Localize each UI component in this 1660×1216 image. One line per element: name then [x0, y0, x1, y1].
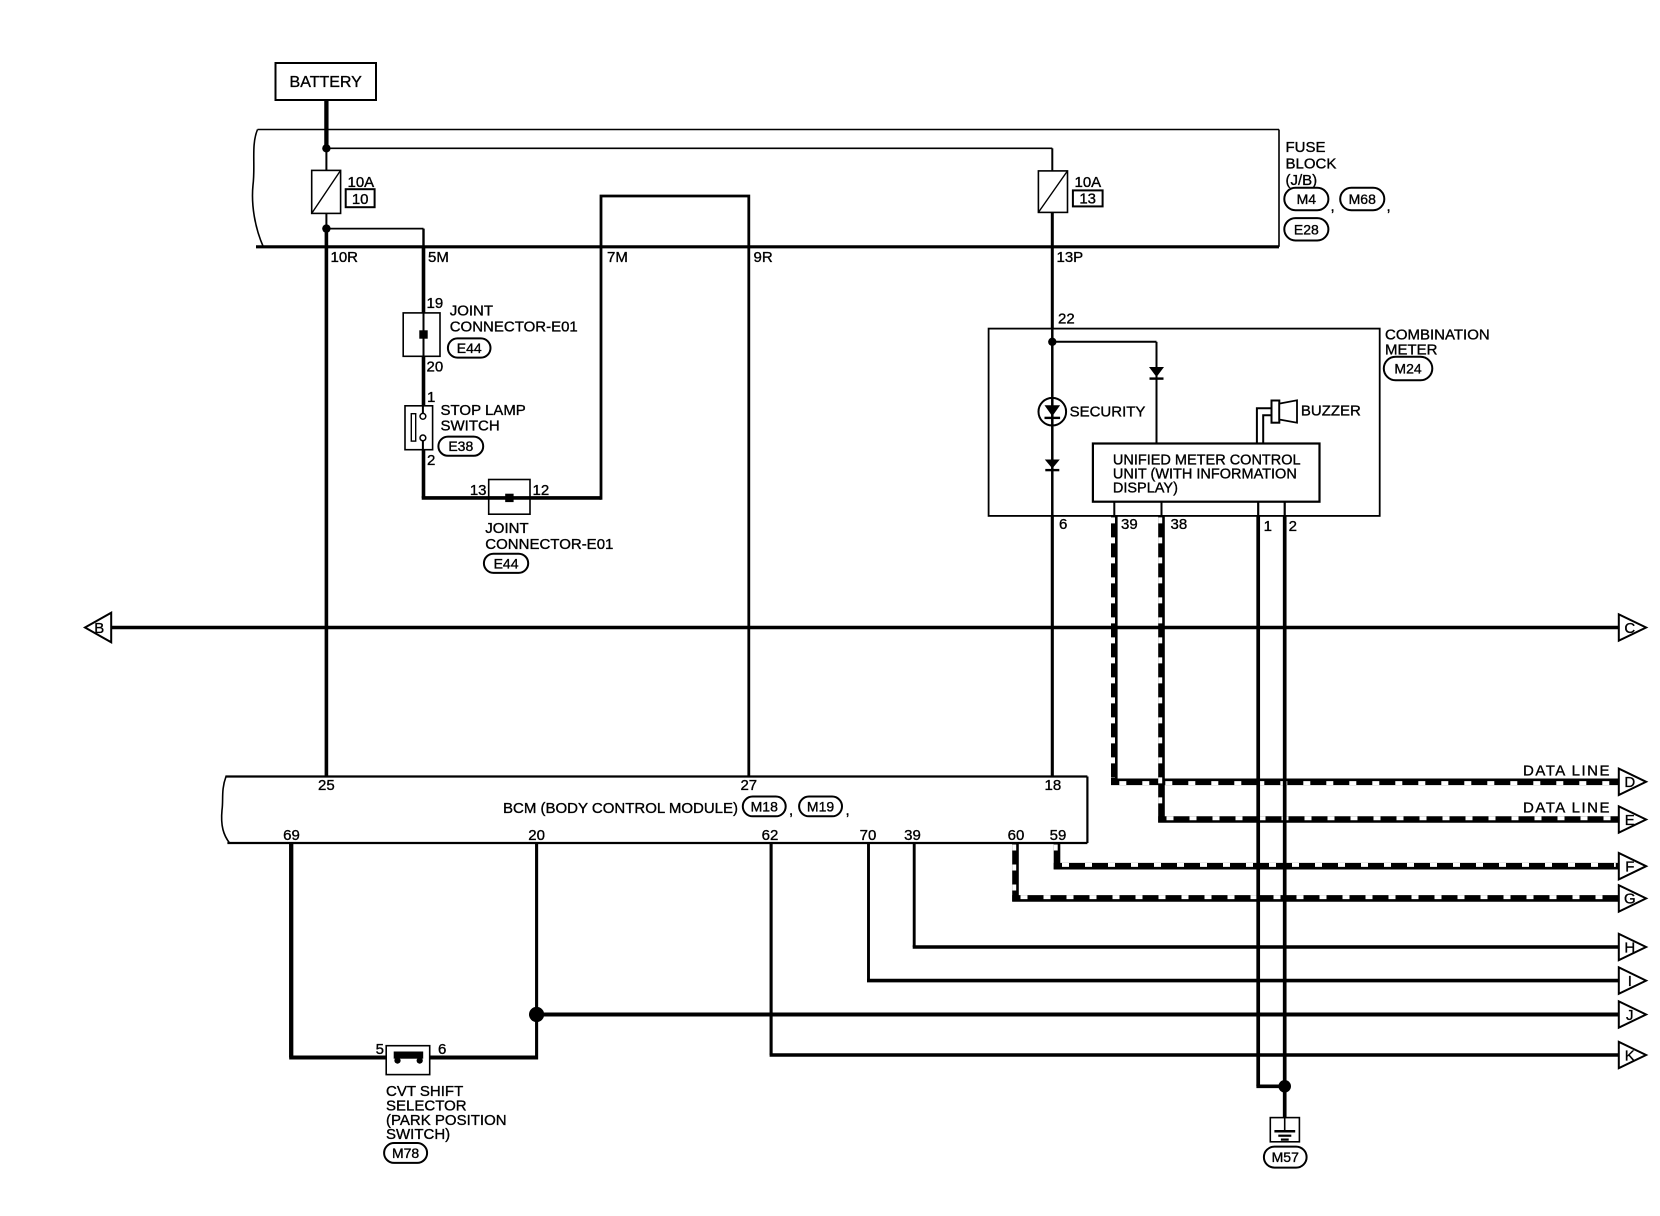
svg-text:39: 39	[1121, 516, 1138, 533]
svg-text:10: 10	[352, 191, 369, 208]
svg-text:2: 2	[427, 452, 435, 469]
svg-text:20: 20	[427, 359, 444, 376]
svg-text:9R: 9R	[754, 249, 773, 266]
svg-text:13P: 13P	[1057, 249, 1084, 266]
svg-text:M78: M78	[392, 1145, 419, 1161]
svg-text:10A: 10A	[1075, 174, 1102, 191]
svg-text:39: 39	[904, 827, 921, 844]
svg-text:SECURITY: SECURITY	[1070, 404, 1146, 421]
svg-text:M19: M19	[807, 798, 834, 814]
svg-text:6: 6	[1059, 516, 1067, 533]
svg-text:BATTERY: BATTERY	[290, 74, 363, 91]
svg-text:G: G	[1624, 891, 1636, 908]
svg-text:E28: E28	[1294, 221, 1319, 237]
svg-text:JOINT: JOINT	[450, 303, 493, 320]
svg-text:27: 27	[740, 777, 757, 794]
svg-text:D: D	[1624, 774, 1635, 791]
svg-text:BCM (BODY CONTROL MODULE): BCM (BODY CONTROL MODULE)	[503, 800, 738, 817]
svg-text:13: 13	[470, 482, 487, 499]
svg-text:DATA LINE: DATA LINE	[1523, 763, 1611, 780]
svg-text:60: 60	[1008, 827, 1025, 844]
svg-text:I: I	[1628, 973, 1632, 990]
svg-text:K: K	[1625, 1047, 1635, 1064]
svg-text:E44: E44	[494, 555, 519, 571]
svg-text:7M: 7M	[607, 249, 628, 266]
svg-text:BLOCK: BLOCK	[1286, 156, 1337, 173]
svg-text:(J/B): (J/B)	[1286, 172, 1318, 189]
svg-text:38: 38	[1171, 516, 1188, 533]
svg-text:E: E	[1625, 812, 1635, 829]
svg-text:19: 19	[427, 295, 444, 312]
svg-text:22: 22	[1058, 311, 1075, 328]
svg-text:J: J	[1626, 1007, 1634, 1024]
svg-text:STOP LAMP: STOP LAMP	[441, 402, 526, 419]
svg-text:5: 5	[376, 1041, 384, 1058]
svg-text:FUSE: FUSE	[1286, 139, 1326, 156]
svg-text:E38: E38	[448, 438, 473, 454]
svg-text:F: F	[1625, 859, 1634, 876]
svg-text:69: 69	[283, 827, 300, 844]
svg-text:1: 1	[1264, 518, 1272, 535]
svg-text:M18: M18	[751, 798, 778, 814]
svg-text:,: ,	[846, 802, 850, 819]
svg-text:M4: M4	[1297, 191, 1317, 207]
svg-text:CONNECTOR-E01: CONNECTOR-E01	[450, 319, 578, 336]
svg-text:M24: M24	[1394, 361, 1421, 377]
svg-text:18: 18	[1045, 777, 1062, 794]
svg-text:SWITCH): SWITCH)	[386, 1126, 450, 1143]
svg-text:H: H	[1624, 939, 1635, 956]
svg-text:2: 2	[1289, 518, 1297, 535]
svg-text:B: B	[94, 620, 104, 637]
svg-text:CONNECTOR-E01: CONNECTOR-E01	[485, 536, 613, 553]
svg-text:25: 25	[318, 777, 335, 794]
svg-text:6: 6	[438, 1041, 446, 1058]
svg-text:62: 62	[762, 827, 779, 844]
svg-text:DATA LINE: DATA LINE	[1523, 800, 1611, 817]
svg-text:1: 1	[427, 389, 435, 406]
svg-text:,: ,	[1331, 198, 1335, 215]
svg-text:SWITCH: SWITCH	[441, 418, 500, 435]
svg-text:M57: M57	[1272, 1149, 1299, 1165]
svg-text:E44: E44	[457, 340, 482, 356]
svg-text:12: 12	[533, 482, 550, 499]
svg-text:DISPLAY): DISPLAY)	[1113, 481, 1178, 497]
svg-text:59: 59	[1050, 827, 1067, 844]
svg-text:70: 70	[860, 827, 877, 844]
svg-text:,: ,	[1387, 198, 1391, 215]
svg-text:M68: M68	[1349, 191, 1376, 207]
svg-text:10A: 10A	[348, 174, 375, 191]
svg-text:JOINT: JOINT	[485, 520, 528, 537]
svg-text:C: C	[1624, 620, 1635, 637]
svg-text:,: ,	[789, 802, 793, 819]
svg-text:BUZZER: BUZZER	[1301, 403, 1361, 420]
svg-text:10R: 10R	[331, 249, 359, 266]
svg-text:5M: 5M	[428, 249, 449, 266]
svg-text:20: 20	[528, 827, 545, 844]
svg-text:13: 13	[1079, 191, 1096, 208]
